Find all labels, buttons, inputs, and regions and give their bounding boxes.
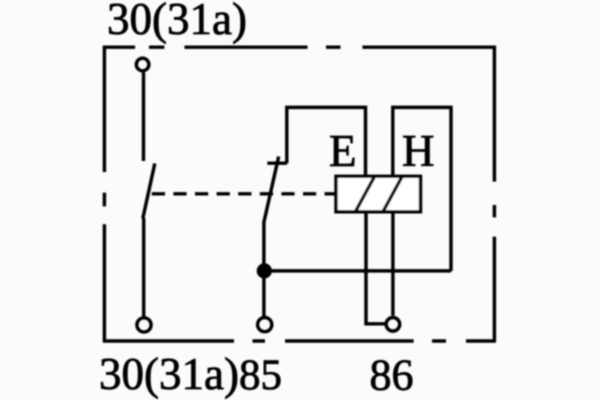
svg-text:86: 86 bbox=[370, 351, 414, 400]
svg-text:30(31a): 30(31a) bbox=[107, 0, 247, 44]
svg-text:30(31a): 30(31a) bbox=[99, 349, 239, 399]
svg-text:85: 85 bbox=[239, 352, 282, 399]
svg-text:H: H bbox=[402, 126, 435, 176]
svg-text:E: E bbox=[329, 126, 357, 176]
